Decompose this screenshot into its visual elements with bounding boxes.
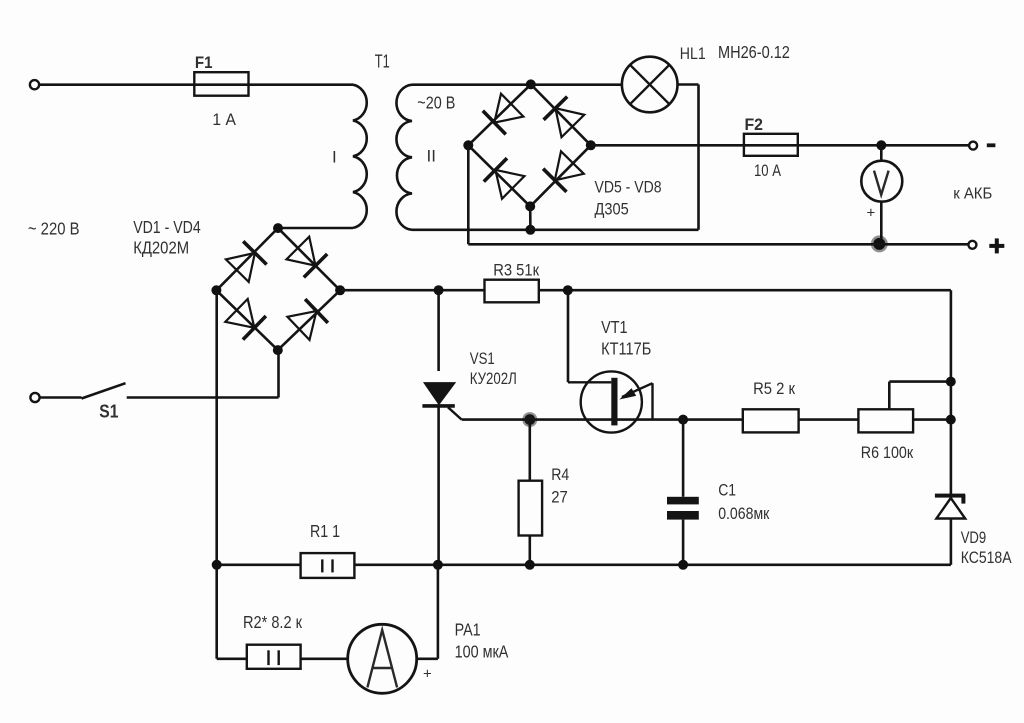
- node bridge2 top: [526, 79, 536, 89]
- svg-text:R5 2 к: R5 2 к: [753, 379, 795, 398]
- node: [678, 415, 688, 425]
- node: [212, 560, 222, 570]
- wire: [880, 145, 883, 160]
- label 0.068мк: [718, 504, 770, 523]
- node bridge1 right: [335, 285, 345, 295]
- resistor R4: [519, 481, 543, 536]
- resistor R3: [485, 280, 539, 303]
- switch S1 blade: [82, 383, 126, 398]
- wire: [880, 202, 883, 244]
- resistor R1: [301, 553, 355, 578]
- node: [678, 560, 688, 570]
- capacitor C1: [667, 497, 699, 520]
- label F2: [745, 115, 764, 134]
- wire: [216, 228, 278, 290]
- node: [434, 285, 444, 295]
- fuse F1: [194, 72, 248, 96]
- svg-text:F1: F1: [195, 53, 213, 72]
- node: [433, 560, 443, 570]
- resistor R6 (trimmer): [858, 409, 913, 432]
- wire: [340, 289, 484, 292]
- label F1: [195, 53, 213, 72]
- label ~20 В: [417, 93, 455, 113]
- wire: [468, 243, 968, 246]
- wire: [682, 520, 685, 565]
- diode VD3 (bridge bottom-left): [225, 299, 266, 340]
- wire: [468, 145, 530, 206]
- label VD5 - VD8: [595, 178, 662, 197]
- wire: [437, 565, 440, 659]
- label R1 1: [310, 521, 340, 541]
- node: [946, 415, 956, 425]
- wire: [462, 418, 743, 421]
- wire (right column): [950, 290, 953, 497]
- label VT1: [601, 317, 628, 337]
- svg-text:КТ117Б: КТ117Б: [601, 338, 651, 358]
- svg-text:КС518А: КС518А: [961, 548, 1012, 567]
- svg-text:R1 1: R1 1: [310, 521, 340, 541]
- label 10 А: [754, 161, 782, 180]
- label КД202М: [133, 238, 189, 258]
- label МН26-0.12: [718, 42, 790, 62]
- diode VD5 (bridge top-left): [483, 94, 524, 135]
- svg-text:II: II: [427, 146, 436, 165]
- wire (bottom rail): [217, 563, 301, 566]
- svg-text:VD5 - VD8: VD5 - VD8: [595, 178, 662, 197]
- node bridge1 bottom: [273, 345, 283, 355]
- label к АКБ: [953, 185, 992, 202]
- svg-text:10 А: 10 А: [754, 161, 782, 180]
- label I (primary): [332, 148, 337, 167]
- node: [563, 285, 573, 295]
- label II (secondary): [427, 146, 436, 165]
- node bridge2 right: [586, 140, 596, 150]
- wire: [216, 290, 277, 350]
- diode VD4 (bridge bottom-right): [287, 299, 328, 340]
- node bridge1 top: [273, 223, 283, 233]
- wire: [437, 406, 440, 565]
- label R5 2 к: [753, 379, 795, 398]
- lamp HL1: [622, 57, 678, 113]
- wire: [678, 83, 699, 86]
- wire: [278, 228, 340, 290]
- svg-text:100 мкА: 100 мкА: [455, 642, 509, 662]
- ammeter PA1: [348, 624, 417, 693]
- wire: [682, 420, 685, 497]
- svg-text:Д305: Д305: [595, 200, 629, 219]
- diode VD8 (bridge bottom-right): [543, 151, 584, 192]
- svg-text:VS1: VS1: [470, 349, 495, 368]
- terminal X1 (mains input, top): [30, 80, 39, 89]
- svg-text:КД202М: КД202М: [133, 238, 189, 258]
- label T1: [375, 51, 390, 71]
- svg-text:МН26-0.12: МН26-0.12: [718, 42, 790, 62]
- label Д305: [595, 200, 629, 219]
- label VS1: [470, 349, 495, 368]
- svg-text:27: 27: [551, 487, 568, 506]
- label 27: [551, 487, 568, 506]
- label ~ 220 В: [28, 218, 80, 238]
- label 100 мкА: [455, 642, 509, 662]
- node bridge2 left: [463, 140, 473, 150]
- label 1 А: [212, 110, 236, 129]
- label КТ117Б: [601, 338, 651, 358]
- node: [525, 560, 535, 570]
- wire: [217, 657, 247, 660]
- wire: [529, 206, 532, 229]
- label VD1 - VD4: [133, 217, 201, 237]
- label КС518А: [961, 548, 1012, 567]
- wire: [278, 227, 353, 230]
- svg-text:~20 В: ~20 В: [417, 93, 455, 113]
- wire: [277, 350, 280, 397]
- label + (plus): [989, 238, 1004, 253]
- label КУ202Л: [470, 369, 517, 388]
- label VD9: [961, 528, 987, 547]
- wire: [950, 519, 953, 565]
- wire: [799, 418, 859, 421]
- wire (R6 wiper): [889, 382, 951, 410]
- wire: [412, 83, 622, 86]
- transformer T1 primary winding I: [353, 85, 367, 228]
- node: [525, 225, 535, 235]
- wire: [417, 657, 438, 660]
- wire: [412, 229, 699, 232]
- thyristor VS1: [422, 383, 455, 406]
- svg-text:0.068мк: 0.068мк: [718, 504, 770, 523]
- wire: [437, 290, 440, 371]
- label PA1: [455, 619, 481, 639]
- terminal X2 (mains input, bottom): [30, 393, 39, 402]
- svg-text:HL1: HL1: [680, 44, 706, 63]
- svg-text:VD9: VD9: [961, 528, 987, 547]
- svg-text:1 А: 1 А: [212, 110, 236, 129]
- svg-text:R3 51к: R3 51к: [493, 260, 539, 279]
- wire (VS1 gate): [448, 407, 462, 419]
- svg-text:S1: S1: [99, 401, 118, 421]
- svg-text:КУ202Л: КУ202Л: [470, 369, 517, 388]
- svg-text:~ 220 В: ~ 220 В: [28, 218, 80, 238]
- svg-text:F2: F2: [745, 115, 764, 134]
- node bridge1 left: [211, 285, 221, 295]
- resistor R2: [247, 645, 301, 669]
- voltmeter PV1: [861, 161, 902, 202]
- node (fuzzy): [522, 412, 537, 427]
- wire (VT1 base2 riser): [567, 290, 570, 382]
- diode VD1 (bridge top-left): [226, 241, 267, 282]
- label + (ammeter polarity): [423, 665, 432, 682]
- wire: [697, 85, 700, 230]
- wire: [301, 657, 348, 660]
- transformer T1 secondary winding II: [396, 85, 412, 230]
- wire: [127, 396, 279, 399]
- label HL1: [680, 44, 706, 63]
- wire: [530, 145, 591, 206]
- node bridge2 bottom: [525, 201, 535, 211]
- wire: [528, 420, 531, 481]
- terminal minus output: [969, 142, 977, 150]
- wire (bottom rail): [354, 563, 951, 566]
- diode VD6 (bridge top-right): [544, 97, 585, 138]
- wire: [215, 290, 218, 659]
- label - (minus): [987, 143, 996, 147]
- svg-text:T1: T1: [375, 51, 390, 71]
- svg-text:R6 100к: R6 100к: [861, 443, 914, 462]
- wire: [531, 84, 591, 145]
- wire: [467, 145, 470, 244]
- svg-text:I: I: [332, 148, 337, 167]
- label R2* 8.2 к: [243, 612, 302, 632]
- svg-text:PA1: PA1: [455, 619, 481, 639]
- wire: [39, 83, 195, 86]
- wire: [591, 144, 744, 147]
- transistor VT1: [568, 371, 653, 432]
- wire: [798, 144, 970, 147]
- svg-text:VT1: VT1: [601, 317, 628, 337]
- wire: [468, 84, 531, 145]
- svg-text:R4: R4: [551, 465, 569, 484]
- resistor R5: [743, 409, 799, 432]
- svg-text:к АКБ: к АКБ: [953, 185, 992, 202]
- wire: [278, 290, 340, 350]
- node (fuzzy): [871, 235, 888, 252]
- terminal plus output: [968, 241, 976, 249]
- label R6 100к: [861, 443, 914, 462]
- svg-text:R2* 8.2 к: R2* 8.2 к: [243, 612, 302, 632]
- svg-text:+: +: [423, 665, 432, 682]
- wire: [539, 289, 951, 292]
- zener diode VD9: [935, 494, 966, 519]
- svg-text:C1: C1: [718, 480, 736, 499]
- svg-text:VD1 - VD4: VD1 - VD4: [133, 217, 201, 237]
- wire: [40, 396, 82, 399]
- node: [946, 377, 956, 387]
- label R3 51к: [493, 260, 539, 279]
- label S1: [99, 401, 118, 421]
- diode VD2 (bridge top-right): [287, 237, 328, 278]
- wire: [249, 83, 354, 86]
- svg-text:+: +: [867, 205, 876, 222]
- wire: [528, 536, 531, 565]
- label C1: [718, 480, 736, 499]
- label + (voltmeter polarity): [867, 205, 876, 222]
- diode VD7 (bridge bottom-left): [484, 158, 525, 199]
- node: [876, 140, 886, 150]
- wire: [913, 418, 951, 421]
- fuse F2: [744, 134, 798, 156]
- label R4: [551, 465, 569, 484]
